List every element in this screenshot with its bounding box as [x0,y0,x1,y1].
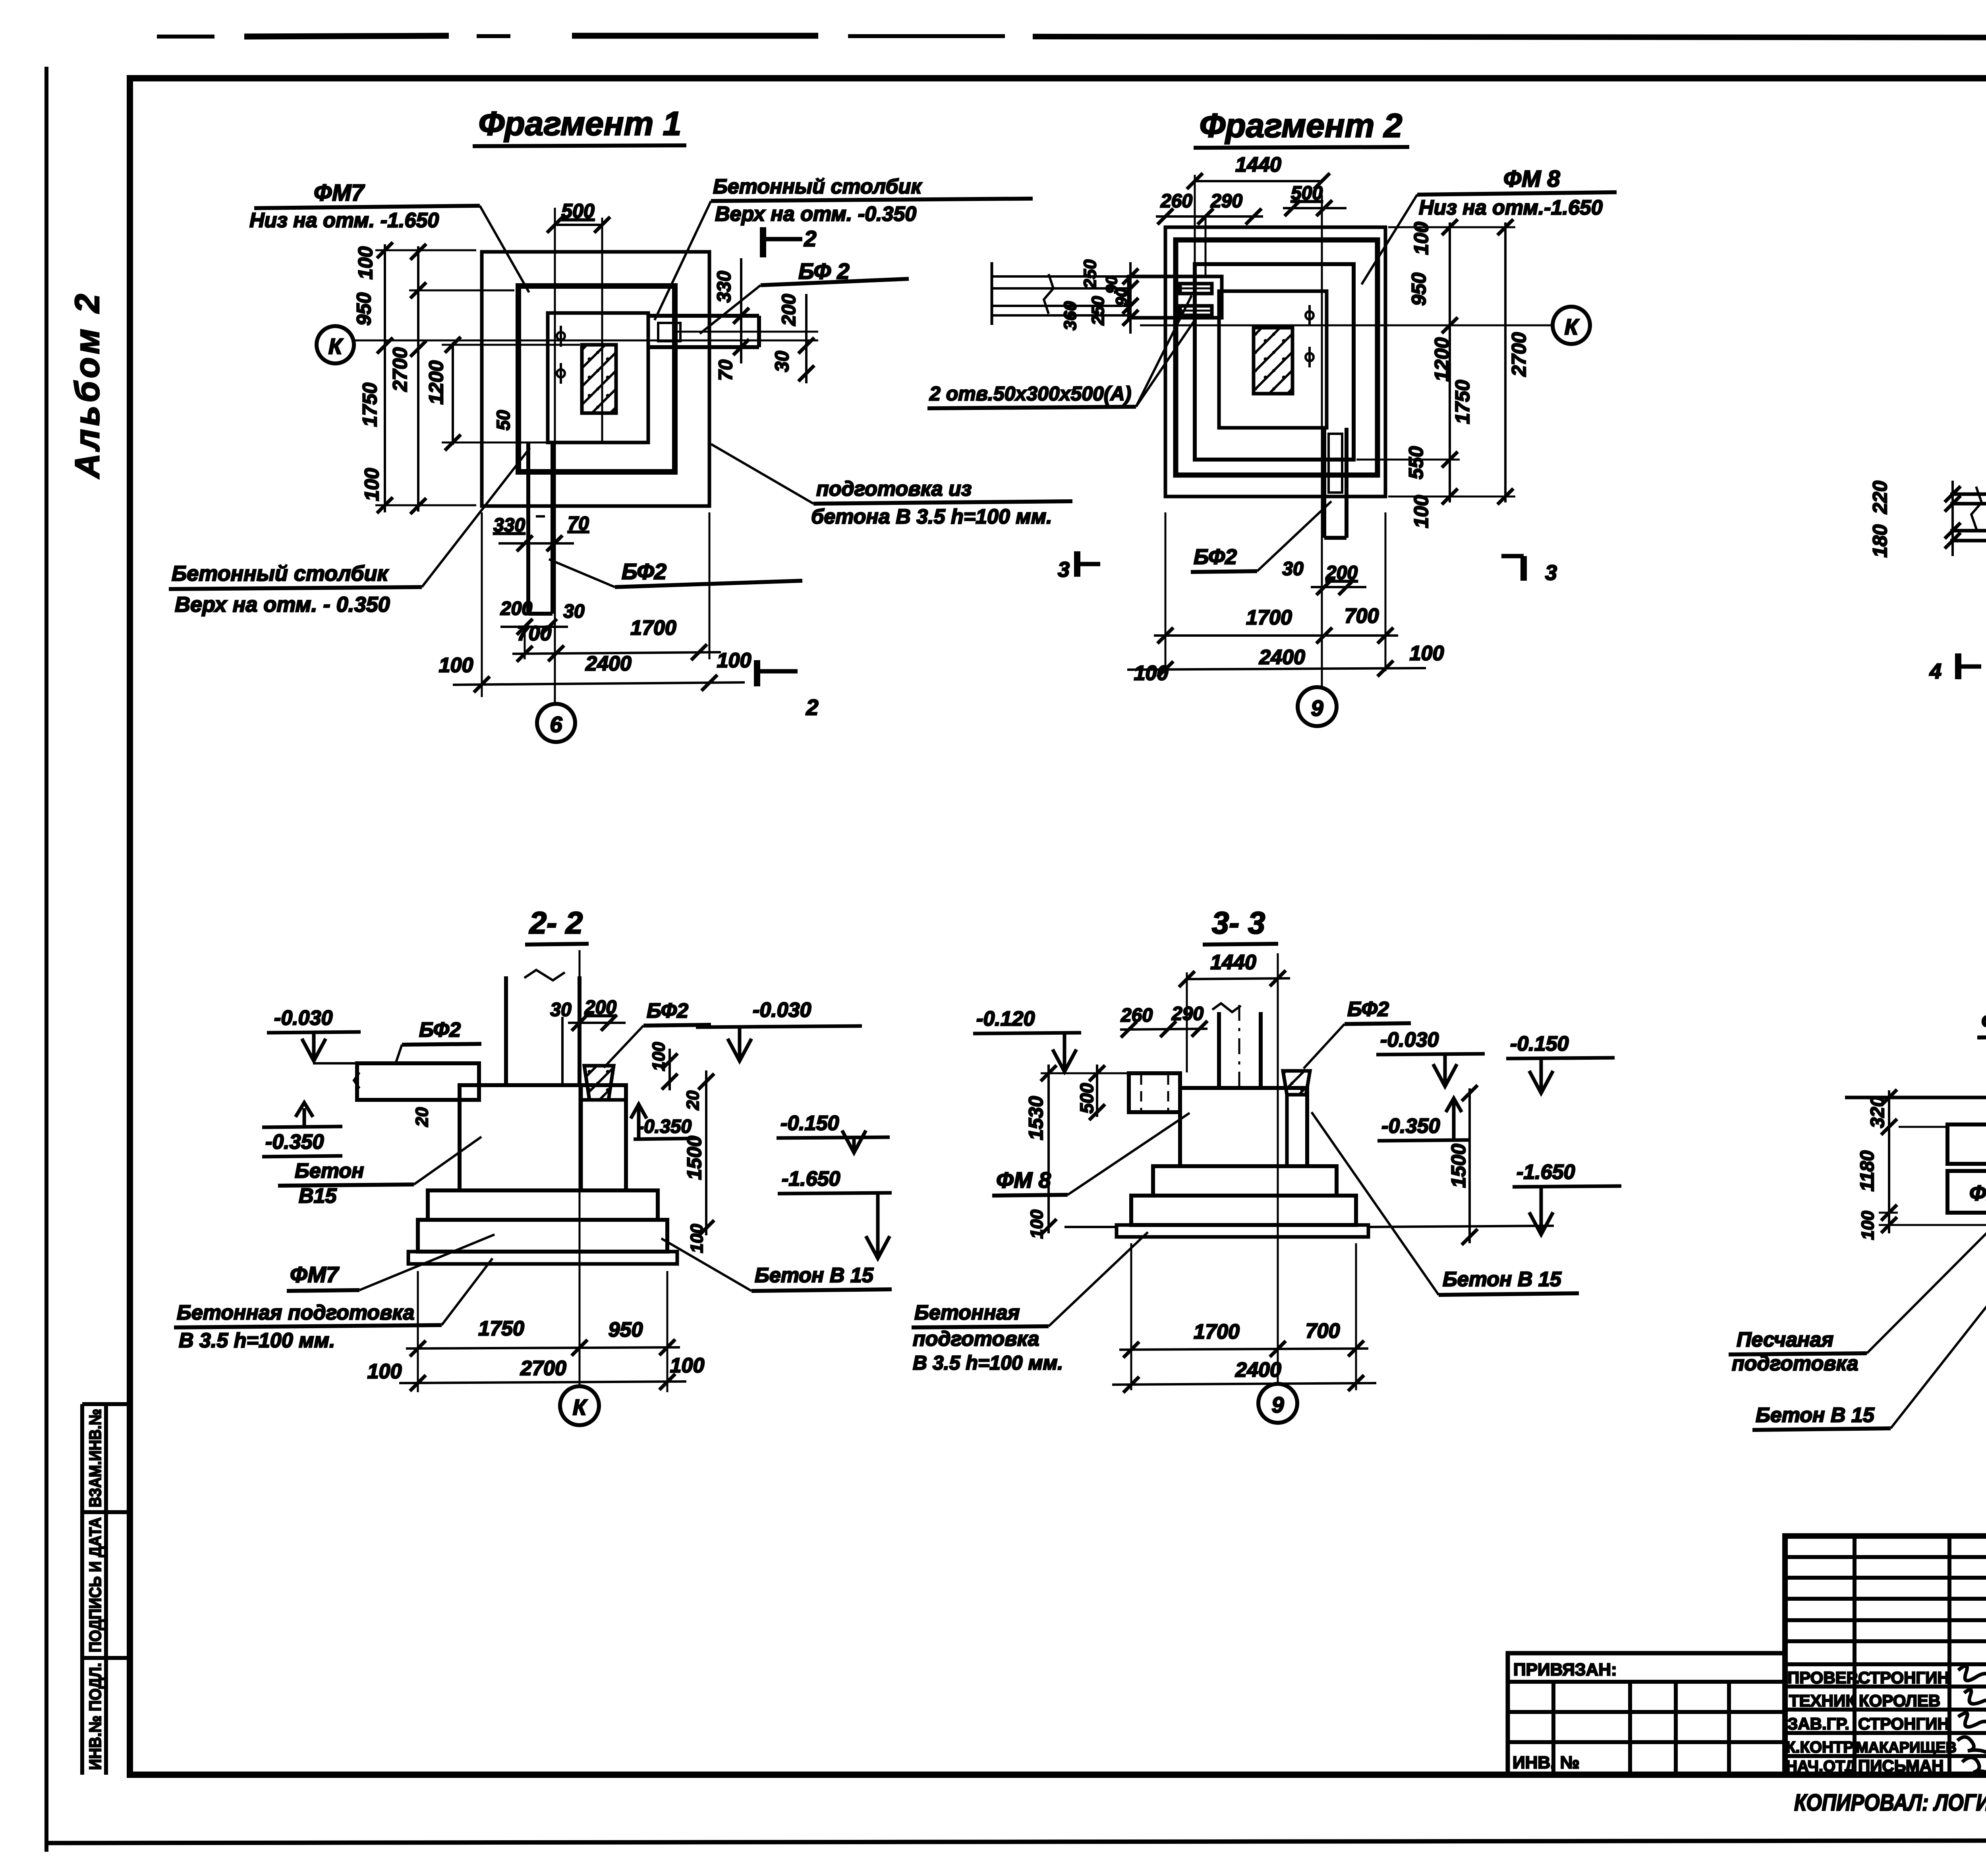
svg-text:2700: 2700 [1508,332,1530,377]
svg-text:100: 100 [1134,662,1169,685]
svg-text:ФМ 8: ФМ 8 [1503,166,1560,192]
svg-text:100: 100 [670,1354,705,1377]
frag2 hatched column [1254,328,1292,394]
svg-text:-0.150: -0.150 [1510,1032,1569,1055]
sec33 left block [1129,1073,1180,1112]
svg-text:70: 70 [568,513,589,534]
sec33 level -0.150 [1506,1032,1615,1093]
frag2 axis K line [1140,325,1552,327]
sec33 left dim 1530 [1041,1065,1127,1235]
svg-text:-0.030: -0.030 [753,999,811,1022]
frag1 section mark 2 bottom [757,660,819,720]
svg-text:20: 20 [412,1107,432,1127]
sec22 level -1.650 right [778,1167,892,1258]
svg-text:К: К [328,334,344,359]
frag2 axis K circle [1553,307,1590,344]
fragment 2 title [1194,107,1409,148]
svg-text:1200: 1200 [1431,337,1453,381]
svg-text:3- 3: 3- 3 [1212,905,1265,940]
svg-text:ФМ 8: ФМ 8 [1981,1009,1986,1034]
frag3 left channel [1950,487,1986,541]
frag1 bottom channel (concrete post) [528,442,553,614]
sec22 BF2 beam left [313,1063,479,1100]
svg-text:ФБС 1: ФБС 1 [1969,1181,1986,1205]
svg-text:700: 700 [1345,605,1379,628]
frag1 top dim 500 [547,200,610,442]
fragment 1 title [473,105,686,146]
svg-text:2400: 2400 [1259,646,1305,669]
svg-text:-0.350: -0.350 [1381,1115,1440,1138]
sec44 left dims 320/1180/100 [1879,1090,1986,1233]
frag2 section mark 3 left [1058,551,1100,582]
svg-text:Фрагмент 2: Фрагмент 2 [1200,107,1403,144]
sec33 dim 1500 [1462,1085,1478,1245]
svg-text:70: 70 [715,359,736,381]
sidebar rotated text: ВЗАМ.ИНВ.№ [86,1409,104,1507]
sec33 bottom dim 1700/700 [1119,1243,1368,1390]
sec22 level -0.030 right [696,999,862,1061]
frag1 axis 6 circle [537,704,575,742]
svg-text:ИНВ. №: ИНВ. № [1513,1753,1580,1772]
sec33 pedestal [1180,1088,1307,1166]
svg-text:В15: В15 [299,1184,337,1208]
frag1 bottom dim 700/1700 [512,512,721,662]
svg-text:БФ2: БФ2 [1347,998,1389,1021]
svg-text:Бетонная подготовка: Бетонная подготовка [177,1301,414,1324]
frag2 bottom small dims 30/200 [1282,558,1366,595]
sheet outer left edge [44,67,48,1852]
frag2 pit inner rect [1176,240,1377,475]
svg-text:Верх на отм. -0.350: Верх на отм. -0.350 [715,203,916,226]
svg-text:3: 3 [1545,561,1557,585]
sec33 level -1.650 [1368,1161,1621,1235]
frag2 right dim labels [1410,222,1432,255]
svg-text:МАКАРИЩЕВ: МАКАРИЩЕВ [1856,1739,1957,1756]
svg-text:Бетонная: Бетонная [914,1301,1020,1324]
svg-text:Бетон В 15: Бетон В 15 [755,1264,874,1287]
frag1 label FM7 [249,180,529,292]
frag1 right channel BF2 [648,316,818,347]
frag1 left dim line 2700 [375,242,476,513]
sec33 left dim 500 [1089,1065,1105,1120]
frag3 section mark 4 left [1929,653,1981,683]
sec22 small rotated dims [649,1042,668,1071]
sec33 slab [1131,1196,1356,1225]
sec33 level -0.120 left [973,1007,1081,1072]
frag1 bottom small dims 330/70 [493,513,589,551]
svg-text:Низ на отм.-1.650: Низ на отм.-1.650 [1419,196,1603,219]
svg-text:2400: 2400 [1235,1358,1281,1381]
sec22 step [428,1190,658,1220]
svg-text:-0.350: -0.350 [265,1130,324,1153]
sheet outer bottom edge [46,1840,1986,1843]
sec22 label Beton B15 right [661,1238,892,1291]
svg-text:1200: 1200 [425,360,447,404]
frag2 section mark 3 right [1501,556,1557,585]
frag1 label concrete post top-right [655,175,1033,320]
svg-text:1440: 1440 [1235,153,1281,176]
frag2 vertical centerline [1321,195,1323,686]
svg-text:200: 200 [779,294,800,326]
svg-text:30: 30 [563,601,585,622]
svg-text:-0.350: -0.350 [638,1116,692,1137]
svg-text:500: 500 [1291,183,1323,204]
svg-text:330: 330 [493,515,525,536]
title block signature table verticals [1855,1536,1986,1775]
svg-text:320: 320 [1867,1096,1888,1128]
frag2 foundation slab rect (thick) [1195,264,1354,460]
svg-text:ПРИВЯЗАН:: ПРИВЯЗАН: [1513,1660,1617,1679]
svg-text:В 3.5 h=100 мм.: В 3.5 h=100 мм. [913,1352,1063,1374]
frag1 bottom small dims 200/30 [500,598,585,635]
svg-text:180: 180 [1869,524,1891,558]
sec22 slab [418,1220,667,1252]
svg-text:ВЗАМ.ИНВ.№: ВЗАМ.ИНВ.№ [86,1409,104,1507]
svg-text:20: 20 [683,1090,703,1110]
frag1 pit outer rect [482,252,709,506]
svg-text:Фрагмент 1: Фрагмент 1 [479,105,682,142]
frag1 bottom dim 2400 [439,512,752,697]
svg-text:100: 100 [1410,642,1444,665]
frag2 left small dims [1080,259,1100,289]
frag2 bottom channel [1324,428,1347,538]
svg-text:БФ2: БФ2 [419,1018,461,1041]
svg-text:950: 950 [609,1318,643,1341]
sec22 hatched wedge [584,1066,614,1100]
frag2 label 2 holes [927,296,1196,408]
svg-text:1700: 1700 [1194,1320,1240,1343]
svg-text:3: 3 [1058,558,1070,582]
sec33 label Beton B15 [1312,1112,1579,1295]
svg-text:1440: 1440 [1210,951,1256,974]
sidebar rotated text: ПОДПИСЬ И ДАТА [86,1517,104,1652]
frag1 axis K circle [317,326,354,363]
sec22 label FM7 [287,1235,495,1291]
svg-text:-0.120: -0.120 [976,1007,1035,1030]
svg-text:КОПИРОВАЛ: ЛОГИНОВА.: КОПИРОВАЛ: ЛОГИНОВА. [1794,1790,1986,1816]
svg-text:950: 950 [1408,272,1430,306]
sec44 label FM8 [1977,1009,1986,1152]
sec22 lean concrete layer [408,1252,677,1264]
svg-text:100: 100 [687,1224,707,1253]
svg-text:ФМ7: ФМ7 [290,1262,340,1287]
frag2 bottom dim 1700/700 [1154,512,1398,671]
svg-text:9: 9 [1271,1392,1284,1417]
frag2 bolt marks [1306,305,1314,367]
svg-text:Песчаная: Песчаная [1737,1328,1833,1351]
svg-text:2: 2 [806,695,818,720]
svg-text:30: 30 [550,999,572,1020]
svg-text:500: 500 [1076,1083,1097,1113]
sec33 label FM8 [992,1113,1190,1196]
frag1 inner step rect [548,313,648,442]
svg-text:950: 950 [353,292,375,326]
frag1 foundation slab rect (thick) [518,286,675,472]
frag2 top dim 260/290 [1156,191,1263,278]
svg-text:1750: 1750 [478,1317,524,1340]
title block signature table horizontals [1785,1557,1986,1756]
sec22 label BF2 top [395,1018,481,1065]
svg-text:100: 100 [439,654,473,677]
svg-text:6: 6 [550,712,562,737]
svg-text:ТЕХНИК: ТЕХНИК [1789,1691,1856,1710]
svg-text:290: 290 [1210,191,1242,212]
svg-text:200: 200 [500,598,532,619]
sec33 label BF2 [1304,998,1411,1068]
frag2 label BF2 bottom [1191,501,1331,572]
svg-text:360: 360 [1061,301,1080,330]
svg-text:100: 100 [367,1360,402,1383]
sec44 label Beton B15 [1752,1221,1986,1430]
sec22 label BF2 top right [604,999,711,1068]
svg-text:1750: 1750 [359,383,381,427]
sec22 level -0.150 right [777,1112,890,1153]
frag1 hatched column [582,345,616,413]
sec22 bottom dim 2700 [367,1354,705,1391]
svg-text:НАЧ.ОТД: НАЧ.ОТД [1786,1758,1856,1775]
svg-text:1500: 1500 [683,1136,705,1180]
svg-text:Альбом 2: Альбом 2 [68,291,106,479]
svg-text:250: 250 [1080,259,1100,289]
frag3 left channel dim 180/220 [1945,481,1961,556]
svg-text:330: 330 [714,271,735,303]
svg-text:100: 100 [1410,495,1432,528]
svg-text:100: 100 [717,649,752,672]
frag2 axis 9 circle [1298,687,1337,726]
svg-text:-1.650: -1.650 [1517,1161,1575,1184]
sec33 column [1212,1003,1261,1090]
svg-text:550: 550 [1405,446,1427,479]
svg-text:2 отв.50х300х500(А): 2 отв.50х300х500(А) [929,383,1131,405]
svg-text:1180: 1180 [1857,1150,1878,1192]
svg-text:700: 700 [517,622,552,645]
svg-text:ПИСЬМАН: ПИСЬМАН [1858,1756,1944,1775]
svg-text:100: 100 [1858,1211,1878,1240]
svg-text:СТРОНГИН: СТРОНГИН [1858,1668,1949,1687]
svg-text:4: 4 [1929,659,1942,683]
svg-text:2700: 2700 [520,1357,566,1380]
sec33 axis 9 circle [1258,1384,1297,1423]
svg-text:В 3.5 h=100 мм.: В 3.5 h=100 мм. [179,1329,335,1352]
sec22 level -0.350 left [262,1103,342,1157]
sheet outer top edge (broken scan line) [157,36,1986,38]
svg-text:1530: 1530 [1025,1096,1047,1140]
svg-text:50: 50 [493,410,514,431]
sec44 label sand podgotovka [1729,1231,1986,1375]
svg-text:9: 9 [1311,696,1323,721]
svg-text:Бетон В 15: Бетон В 15 [1443,1268,1562,1291]
sec22 level -0.030 left [267,1007,361,1061]
svg-text:К: К [573,1395,588,1420]
sec33 label podgotovka [912,1232,1148,1374]
title block signature names [1786,1668,1957,1775]
sec44 FBS1 upper block [1899,1124,1986,1164]
svg-text:ИНВ.№ ПОДЛ.: ИНВ.№ ПОДЛ. [86,1663,104,1770]
title block signatures squiggles [1957,1666,1986,1775]
frag2 inner step rect [1219,291,1327,428]
svg-text:подготовка из: подготовка из [816,477,972,500]
sec33 dim 100 left [1027,1209,1047,1239]
frag1 label concrete post bottom-left [169,448,530,616]
sec22 right dim line 1500 [698,1070,714,1236]
svg-text:ПОДПИСЬ И ДАТА: ПОДПИСЬ И ДАТА [86,1517,104,1652]
sec33 axis centerline [1277,953,1279,1383]
svg-text:Бетон В 15: Бетон В 15 [1756,1404,1875,1427]
svg-text:200: 200 [584,997,616,1018]
svg-text:БФ2: БФ2 [1194,545,1237,569]
svg-text:100: 100 [1027,1209,1047,1239]
sec33 level -0.350 [1377,1098,1470,1141]
svg-text:30: 30 [1282,558,1304,580]
svg-text:БФ2: БФ2 [622,559,667,584]
frag1 right small dims 330/70/200/30 [714,271,735,303]
title block outer [1785,1536,1986,1775]
svg-text:100: 100 [361,468,383,501]
frag2 bottom dim 2400 [1127,642,1444,685]
frag1 dim 1200 line [442,337,580,450]
sec33 bottom dim 2400 [1112,1358,1376,1393]
svg-text:290: 290 [1171,1003,1204,1024]
svg-text:БФ2: БФ2 [647,999,688,1022]
svg-text:КОРОЛЕВ: КОРОЛЕВ [1859,1691,1940,1710]
sec22 label Beton B15 left [278,1137,481,1208]
frag1 left dim labels [354,246,377,280]
frag1 axis K line [354,340,818,342]
sec33 hatched wedge [1283,1071,1310,1095]
svg-text:1700: 1700 [630,616,676,640]
svg-text:ПРОВЕР.: ПРОВЕР. [1787,1668,1860,1687]
svg-text:ФМ 8: ФМ 8 [996,1167,1051,1192]
sec44 FBS1 lower block [1947,1171,1986,1213]
frag2 left beam lines [992,262,1129,325]
svg-text:500: 500 [561,200,595,222]
svg-text:-0.030: -0.030 [274,1007,333,1030]
svg-text:1750: 1750 [1451,380,1474,424]
frag1 label BF2 bottom [549,559,802,587]
sec22 mid level -0.350 [631,1104,697,1141]
section 2-2 title [525,905,589,945]
sec33 step [1153,1166,1337,1196]
sec33 top dim 1440 [1179,951,1290,1072]
svg-text:1500: 1500 [1447,1144,1470,1188]
sidebar rotated text: ИНВ.№ ПОДЛ. [86,1663,104,1770]
svg-text:Бетон: Бетон [295,1159,364,1182]
svg-text:ФМ7: ФМ7 [314,180,365,206]
frag1 bolt marks [557,326,565,384]
svg-text:1700: 1700 [1246,606,1292,629]
frag2 pit outer rect [1165,227,1385,497]
left sidebar table [82,1404,130,1775]
frag2 label FM8 [1362,166,1617,284]
svg-text:Бетонный столбик: Бетонный столбик [172,562,389,585]
sec22 top dim 30/200 [550,997,626,1031]
sec22 bottom dim 1750/950 [406,1271,680,1392]
sec44 floor line [1845,1096,1986,1099]
svg-text:К: К [1565,314,1580,339]
svg-text:Верх на отм. - 0.350: Верх на отм. - 0.350 [175,593,390,616]
sec33 level -0.030 [1376,1028,1485,1086]
svg-text:2700: 2700 [389,347,411,392]
svg-text:2- 2: 2- 2 [529,905,583,940]
svg-text:Низ на отм. -1.650: Низ на отм. -1.650 [249,209,439,232]
frag1 label podgotovka [711,444,1072,528]
svg-text:2400: 2400 [585,652,632,675]
sec22 column [506,970,580,1085]
svg-text:СТРОНГИН: СТРОНГИН [1858,1714,1949,1733]
sec33 top dim 260/290 [1120,1003,1207,1037]
svg-text:260: 260 [1160,191,1192,212]
svg-text:К.КОНТР: К.КОНТР [1786,1739,1854,1756]
svg-text:подготовка: подготовка [913,1327,1039,1350]
sec22 axis K circle [560,1386,599,1425]
svg-text:30: 30 [772,351,793,372]
sec22 label concrete podgotovka [174,1258,493,1352]
attachment table left of stamp [1508,1653,1785,1775]
svg-text:700: 700 [1306,1320,1340,1343]
svg-text:-0.030: -0.030 [1380,1028,1439,1051]
svg-text:бетона В 3.5 h=100 мм.: бетона В 3.5 h=100 мм. [811,505,1052,528]
frag1 left dim line 950/1750 [409,244,514,514]
album label: Альбом 2 (rotated) [68,291,106,479]
frag2 top dim 1440 [1187,153,1330,262]
svg-text:100: 100 [354,246,377,280]
sec22 axis centerline [579,950,581,1385]
sec33 lean concrete layer [1064,1225,1368,1237]
sec22 pedestal [460,1085,626,1190]
svg-text:100: 100 [1410,222,1432,255]
svg-text:-0.150: -0.150 [780,1112,839,1135]
svg-text:250: 250 [1088,296,1108,326]
frag1 label BF2 right [700,259,909,334]
frag2 left channel with slots [1129,276,1222,318]
frag2 right dim lines [1356,219,1515,504]
note kopiroval below frame [1794,1790,1986,1816]
svg-text:Бетонный столбик: Бетонный столбик [713,175,922,198]
svg-text:2: 2 [804,226,816,251]
svg-text:ЗАВ.ГР.: ЗАВ.ГР. [1787,1714,1849,1733]
svg-text:220: 220 [1869,481,1891,514]
frag1 vertical centerline [554,208,556,703]
frag1 section mark 2 top [763,226,817,257]
section 3-3 title [1203,905,1278,945]
frag2 top dim 500 [1283,183,1347,216]
svg-text:-1.650: -1.650 [782,1167,840,1190]
